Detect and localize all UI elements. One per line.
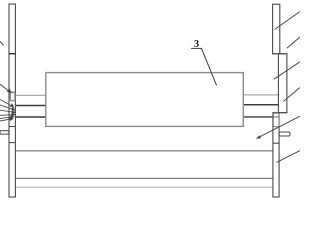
left upper frame bar line <box>15 105 46 107</box>
leader fan line 5 <box>0 116 14 119</box>
right mounting tab <box>279 132 290 136</box>
right lower post <box>273 113 279 197</box>
leader fan line 3 <box>0 110 15 113</box>
right lower frame bar line <box>243 116 274 118</box>
right long leader line e <box>257 116 300 138</box>
bottom thin plate line <box>15 186 273 188</box>
label 3 leader <box>202 48 217 85</box>
right lower post divider <box>273 142 279 144</box>
left post divider mid <box>9 126 15 128</box>
leader to bearing <box>0 84 11 92</box>
left lower frame bar line <box>9 116 46 118</box>
leader fan line 2 <box>0 105 15 110</box>
left post <box>9 4 15 197</box>
left shaft (light) <box>15 94 46 96</box>
right wall <box>278 54 287 113</box>
leader tick top-left <box>0 42 4 46</box>
bottom platform lower edge <box>15 177 273 179</box>
label 3 underline <box>191 47 202 49</box>
leader fan line 4 <box>0 113 15 116</box>
right upper post <box>273 4 280 54</box>
leader fan line 6 <box>0 118 13 121</box>
right wall top step line <box>273 53 287 55</box>
right leader line a <box>275 12 301 30</box>
right shaft (light) <box>243 94 279 96</box>
left bearing block <box>10 92 15 101</box>
left post divider upper <box>9 53 16 55</box>
bottom platform top edge <box>15 150 273 152</box>
left mounting tab <box>0 131 9 134</box>
right bearing block <box>273 113 279 127</box>
right leader line f <box>277 151 300 163</box>
left post divider lower <box>9 142 15 144</box>
leader fan line 1 <box>0 100 13 108</box>
right leader line d <box>283 88 300 102</box>
right wall bottom step line <box>273 112 287 114</box>
right lower post divider mark <box>273 116 279 118</box>
right leader line c <box>274 62 300 80</box>
right upper frame bar line <box>243 104 279 106</box>
roller 3 body <box>46 73 244 127</box>
right leader line b <box>287 37 300 48</box>
